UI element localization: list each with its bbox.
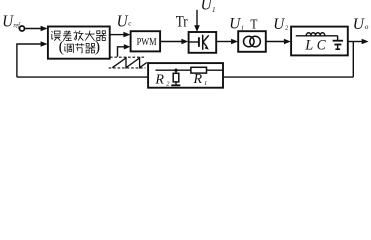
node U_c label [117, 11, 133, 30]
transistor symbol inside switch box [190, 35, 209, 50]
wire LC to output [348, 41, 362, 43]
wire feedback riser left [17, 44, 41, 77]
sawtooth waveform [112, 58, 147, 68]
svg-text:(: ( [59, 39, 64, 56]
wire PWM to switch [160, 41, 182, 43]
svg-text:U: U [117, 11, 130, 30]
wire switch to transformer [216, 41, 231, 43]
wire transformer to LC filter [266, 41, 285, 43]
LC filter box [291, 27, 348, 56]
error amplifier box [48, 27, 110, 59]
svg-text:U: U [353, 16, 366, 33]
capacitor C symbol [333, 36, 344, 49]
sawtooth dashed level bottom [109, 67, 146, 69]
svg-text:R: R [154, 73, 164, 88]
svg-text:U: U [201, 0, 213, 14]
wire divider box to bottom left [17, 76, 148, 78]
LC filter internal wire [296, 35, 338, 37]
resistor R2 (vertical) [171, 70, 180, 85]
transformer box [238, 31, 266, 52]
transformer winding circles [244, 36, 255, 47]
wire output junction down [352, 42, 354, 78]
switch box Tr [189, 32, 217, 53]
svg-text:C: C [317, 38, 326, 54]
resistor R1 (horizontal) [191, 67, 207, 73]
node U_1 label (after switch) [229, 16, 244, 33]
svg-text:1: 1 [204, 80, 207, 87]
node U_2 label [273, 16, 289, 33]
svg-text:): ) [95, 39, 100, 56]
wire U_ref to error amplifier [25, 28, 42, 30]
node U_o label [353, 16, 369, 33]
wire error amp to PWM [110, 34, 124, 36]
svg-text:o: o [365, 23, 369, 31]
error amplifier label line1 误差放大器 [51, 31, 106, 41]
sawtooth dashed level top [110, 56, 145, 58]
svg-text:T: T [250, 16, 258, 31]
node U_ref label [2, 11, 20, 30]
svg-text:1: 1 [212, 6, 216, 14]
node U_1 input label [201, 0, 216, 14]
wire sawtooth to PWM [118, 47, 125, 57]
terminal U_ref [20, 26, 25, 31]
svg-text:R: R [192, 72, 202, 87]
inductor L coil [306, 33, 324, 36]
svg-text:PWM: PWM [137, 36, 157, 48]
wire U_1 down into switch [196, 10, 198, 26]
label R1 [192, 72, 207, 87]
PWM box [131, 31, 161, 51]
divider internal wire [156, 69, 223, 71]
svg-text:Tr: Tr [176, 13, 189, 30]
wire bottom right to divider box [223, 76, 353, 78]
junction node R2 top [174, 69, 177, 72]
svg-text:L: L [304, 38, 313, 54]
divider network box [148, 63, 223, 88]
error amplifier label line2 (调节器) [59, 39, 101, 56]
label R2 [154, 73, 170, 88]
